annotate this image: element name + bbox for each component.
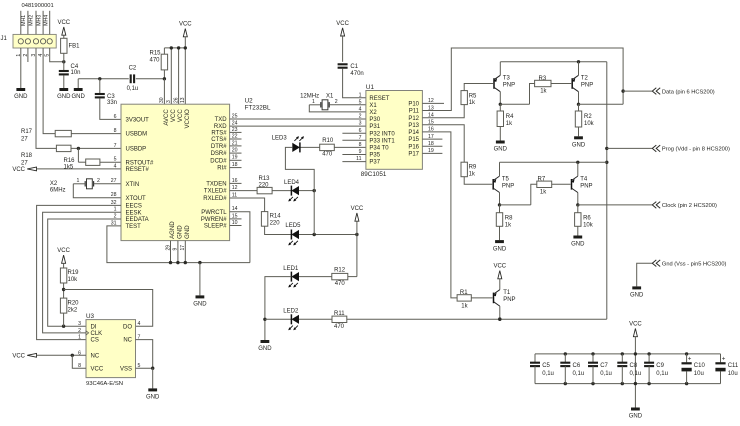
svg-text:T5: T5	[502, 176, 510, 182]
svg-text:8: 8	[359, 142, 362, 148]
svg-text:XTIN: XTIN	[126, 182, 140, 188]
svg-text:T1: T1	[503, 290, 511, 296]
svg-text:R3: R3	[539, 76, 547, 82]
svg-text:R2: R2	[584, 114, 592, 120]
svg-text:3: 3	[78, 321, 81, 327]
svg-text:10u: 10u	[694, 371, 704, 377]
svg-text:0,1u: 0,1u	[542, 371, 554, 377]
svg-text:R5: R5	[469, 93, 477, 99]
svg-text:10k: 10k	[584, 121, 595, 127]
svg-text:3: 3	[166, 100, 172, 103]
svg-text:T3: T3	[503, 76, 511, 82]
svg-text:RTS#: RTS#	[211, 131, 227, 137]
svg-text:RXD: RXD	[214, 124, 227, 130]
svg-text:TXDEN: TXDEN	[206, 182, 226, 188]
svg-text:P35: P35	[369, 153, 380, 159]
svg-text:USBDM: USBDM	[126, 132, 148, 138]
svg-text:MH1: MH1	[21, 15, 27, 26]
svg-text:P33 INT1: P33 INT1	[369, 138, 395, 144]
svg-text:R13: R13	[259, 176, 271, 182]
svg-text:GND: GND	[258, 346, 272, 352]
svg-text:PNP: PNP	[502, 183, 514, 189]
svg-text:C9: C9	[656, 363, 664, 369]
svg-text:470n: 470n	[350, 71, 363, 77]
svg-text:R19: R19	[68, 270, 80, 276]
svg-text:R15: R15	[150, 51, 162, 57]
svg-text:2: 2	[97, 178, 100, 184]
svg-text:10n: 10n	[71, 70, 81, 76]
svg-text:R6: R6	[583, 216, 591, 222]
svg-text:C1: C1	[350, 64, 358, 70]
svg-text:R14: R14	[270, 214, 282, 220]
svg-text:SLEEP#: SLEEP#	[204, 224, 227, 230]
svg-text:1k: 1k	[540, 89, 547, 95]
svg-text:X1: X1	[326, 94, 334, 100]
svg-text:GND: GND	[57, 94, 71, 100]
svg-text:+: +	[722, 356, 726, 363]
svg-text:LED5: LED5	[285, 223, 301, 229]
svg-text:27: 27	[21, 161, 28, 167]
svg-text:220: 220	[259, 182, 270, 188]
svg-text:470: 470	[335, 281, 346, 287]
svg-text:P11: P11	[409, 109, 420, 115]
svg-text:LED1: LED1	[283, 266, 299, 272]
svg-text:C10: C10	[694, 363, 706, 369]
svg-text:GND: GND	[177, 225, 184, 239]
svg-text:T4: T4	[580, 176, 588, 182]
svg-text:GND: GND	[571, 242, 585, 248]
svg-text:R17: R17	[21, 129, 33, 135]
svg-text:X1: X1	[369, 103, 377, 109]
svg-text:0,1u: 0,1u	[127, 86, 139, 92]
svg-text:EESK: EESK	[126, 210, 142, 216]
svg-text:RXLED#: RXLED#	[203, 196, 227, 202]
svg-text:FT232BL: FT232BL	[245, 105, 271, 112]
svg-text:12MHz: 12MHz	[300, 94, 319, 100]
svg-text:C5: C5	[542, 363, 550, 369]
svg-text:VSS: VSS	[120, 366, 132, 372]
svg-text:EEDATA: EEDATA	[126, 217, 149, 223]
svg-text:5: 5	[359, 99, 362, 105]
svg-text:R16: R16	[64, 158, 76, 164]
svg-text:NC: NC	[123, 338, 132, 344]
svg-text:1: 1	[77, 178, 80, 184]
svg-text:GND: GND	[193, 302, 207, 308]
svg-text:LED2: LED2	[283, 309, 299, 315]
svg-text:X2: X2	[50, 181, 58, 187]
svg-text:1: 1	[312, 99, 315, 105]
svg-text:MH3: MH3	[36, 15, 42, 26]
svg-text:R20: R20	[68, 300, 80, 306]
svg-text:1k: 1k	[540, 189, 547, 195]
svg-text:P34 T0: P34 T0	[369, 146, 389, 152]
svg-text:89C1051: 89C1051	[361, 171, 387, 178]
svg-text:PNP: PNP	[580, 183, 592, 189]
svg-text:PWREN#: PWREN#	[201, 217, 227, 223]
svg-text:C2: C2	[129, 66, 137, 72]
svg-text:C7: C7	[600, 363, 608, 369]
svg-text:R18: R18	[21, 153, 33, 159]
svg-text:C11: C11	[728, 363, 739, 369]
svg-text:VCC: VCC	[12, 167, 25, 173]
svg-text:10u: 10u	[728, 371, 738, 377]
svg-text:R7: R7	[538, 177, 546, 183]
svg-text:P37: P37	[369, 160, 380, 166]
svg-text:GND: GND	[494, 147, 508, 153]
svg-text:5: 5	[114, 157, 117, 163]
svg-text:U2: U2	[245, 98, 254, 105]
svg-text:GND: GND	[184, 225, 191, 239]
svg-text:Data (pin 6 HCS200): Data (pin 6 HCS200)	[662, 89, 715, 95]
svg-text:VCC: VCC	[629, 322, 642, 328]
svg-text:VCC: VCC	[91, 366, 104, 372]
svg-text:28: 28	[111, 192, 117, 198]
svg-text:CLK: CLK	[91, 331, 103, 337]
svg-text:AGND: AGND	[169, 221, 176, 239]
svg-text:USBDP: USBDP	[126, 147, 147, 153]
svg-text:R4: R4	[506, 114, 514, 120]
svg-text:1k: 1k	[469, 171, 476, 177]
svg-text:GND: GND	[14, 94, 28, 100]
svg-text:P30: P30	[369, 117, 380, 123]
svg-text:FB1: FB1	[69, 44, 81, 50]
svg-text:VCC: VCC	[493, 264, 506, 270]
svg-text:0,1u: 0,1u	[573, 371, 585, 377]
svg-text:VCCIO: VCCIO	[184, 109, 191, 129]
svg-text:PNP: PNP	[503, 297, 515, 303]
svg-text:EECS: EECS	[126, 204, 142, 210]
svg-text:TXD: TXD	[215, 117, 228, 123]
svg-text:27: 27	[21, 137, 28, 143]
svg-text:GND: GND	[572, 143, 586, 149]
svg-text:RSTOUT#: RSTOUT#	[126, 160, 155, 166]
svg-text:R12: R12	[334, 268, 346, 274]
svg-text:Gnd (Vss - pin5 HCS200): Gnd (Vss - pin5 HCS200)	[662, 261, 727, 267]
svg-text:1k: 1k	[506, 121, 513, 127]
svg-text:PNP: PNP	[581, 83, 593, 89]
svg-text:2k2: 2k2	[68, 307, 78, 313]
svg-text:470: 470	[150, 58, 161, 64]
svg-text:VCC: VCC	[351, 206, 364, 212]
svg-text:TEST: TEST	[126, 224, 142, 230]
svg-text:2: 2	[78, 328, 81, 334]
svg-text:27: 27	[111, 178, 117, 184]
svg-text:RI#: RI#	[217, 166, 227, 172]
svg-text:6MHz: 6MHz	[50, 188, 66, 194]
svg-text:P32 INT0: P32 INT0	[369, 131, 395, 137]
svg-text:LED4: LED4	[284, 180, 300, 186]
svg-text:CS: CS	[91, 338, 99, 344]
svg-text:470: 470	[322, 151, 333, 157]
svg-text:3V3OUT: 3V3OUT	[126, 118, 150, 124]
svg-text:GND: GND	[72, 94, 86, 100]
svg-text:1: 1	[78, 335, 81, 341]
svg-text:1k: 1k	[469, 100, 476, 106]
svg-text:VCC: VCC	[170, 109, 177, 122]
svg-text:U1: U1	[366, 84, 375, 91]
svg-text:DO: DO	[123, 324, 132, 330]
svg-text:470: 470	[334, 324, 345, 330]
svg-text:VCC: VCC	[336, 21, 349, 27]
svg-text:C6: C6	[573, 363, 581, 369]
svg-text:10k: 10k	[583, 223, 594, 229]
svg-text:DSR#: DSR#	[211, 151, 228, 157]
svg-text:GND: GND	[630, 293, 644, 299]
svg-text:10k: 10k	[68, 277, 79, 283]
svg-text:0481900001: 0481900001	[22, 3, 54, 9]
svg-text:TXLED#: TXLED#	[204, 189, 227, 195]
svg-text:Prog (Vdd - pin 8 HCS200): Prog (Vdd - pin 8 HCS200)	[662, 147, 730, 153]
svg-text:P12: P12	[408, 116, 419, 122]
svg-text:R1: R1	[460, 290, 468, 296]
svg-text:PWRCTL: PWRCTL	[201, 210, 227, 216]
svg-text:CTS#: CTS#	[211, 137, 227, 143]
svg-text:0,1u: 0,1u	[630, 371, 642, 377]
svg-text:LED3: LED3	[272, 136, 288, 142]
svg-text:R11: R11	[334, 311, 345, 317]
svg-text:P14: P14	[408, 130, 419, 136]
svg-text:P17: P17	[408, 152, 419, 158]
svg-text:VCC: VCC	[179, 22, 192, 28]
svg-text:4: 4	[114, 163, 117, 169]
svg-text:R8: R8	[505, 216, 513, 222]
svg-text:4: 4	[359, 107, 362, 113]
svg-text:0,1u: 0,1u	[600, 371, 612, 377]
svg-text:3: 3	[359, 121, 362, 127]
svg-text:1k: 1k	[505, 223, 512, 229]
svg-text:1k5: 1k5	[64, 165, 74, 171]
svg-text:J1: J1	[1, 36, 8, 42]
svg-text:1k: 1k	[461, 303, 468, 309]
svg-text:P10: P10	[408, 102, 419, 108]
svg-text:26: 26	[173, 97, 179, 103]
svg-text:2: 2	[335, 99, 338, 105]
svg-text:DCD#: DCD#	[210, 158, 227, 164]
svg-text:DTR#: DTR#	[211, 144, 227, 150]
svg-text:220: 220	[270, 221, 281, 227]
svg-text:P13: P13	[408, 123, 419, 129]
svg-text:VCC: VCC	[57, 248, 70, 254]
svg-text:MH4: MH4	[44, 15, 50, 26]
svg-text:C8: C8	[630, 363, 638, 369]
svg-text:MH2: MH2	[28, 15, 34, 26]
svg-text:13: 13	[180, 97, 186, 103]
svg-text:GND: GND	[629, 414, 643, 420]
svg-text:7: 7	[114, 143, 117, 149]
svg-text:X2: X2	[369, 110, 377, 116]
svg-text:P31: P31	[369, 124, 380, 130]
svg-text:GND: GND	[146, 395, 160, 401]
svg-text:VCC: VCC	[12, 353, 25, 359]
svg-text:VCC: VCC	[57, 20, 70, 26]
svg-text:2: 2	[359, 114, 362, 120]
svg-text:R10: R10	[322, 138, 334, 144]
svg-text:R9: R9	[469, 164, 477, 170]
svg-text:PNP: PNP	[503, 83, 515, 89]
svg-text:DI: DI	[91, 324, 97, 330]
svg-text:+: +	[688, 356, 692, 363]
svg-text:GND: GND	[493, 246, 507, 252]
svg-text:P16: P16	[408, 144, 419, 150]
svg-text:8: 8	[114, 128, 117, 134]
svg-text:4: 4	[138, 321, 141, 327]
svg-text:NC: NC	[91, 353, 100, 359]
svg-text:T2: T2	[581, 76, 589, 82]
svg-text:33n: 33n	[107, 100, 117, 106]
svg-text:P15: P15	[408, 137, 419, 143]
svg-text:Clock (pin 2 HCS200): Clock (pin 2 HCS200)	[662, 203, 717, 209]
svg-text:RESET#: RESET#	[126, 167, 150, 173]
svg-text:93C46A-E/SN: 93C46A-E/SN	[86, 381, 123, 387]
svg-text:0,1u: 0,1u	[656, 371, 668, 377]
svg-text:U3: U3	[86, 313, 95, 320]
svg-text:1: 1	[359, 92, 362, 98]
svg-text:RESET: RESET	[369, 96, 389, 102]
svg-text:30: 30	[159, 97, 165, 103]
svg-text:XTOUT: XTOUT	[126, 196, 147, 202]
svg-text:6: 6	[114, 114, 117, 120]
